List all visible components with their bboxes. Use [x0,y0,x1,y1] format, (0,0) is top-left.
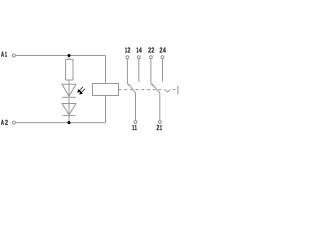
wire branch to resistor [68,56,70,60]
actuator dashed link [119,89,165,91]
label 14 [137,47,142,52]
resistor R1 [66,59,73,80]
wire LED to diode [68,97,70,115]
wire A2 horizontal [16,122,106,124]
wire diode to A2 line [68,115,70,123]
label 11 [132,125,136,130]
contact arm 1 [129,84,136,93]
terminal 14 [137,56,140,59]
diode D2 [62,104,76,115]
junction dot on A2 wire [68,121,71,124]
terminal A2 [12,121,15,124]
wire resistor to LED [68,80,70,96]
wire 12 [126,59,128,84]
wire 24 [162,59,164,82]
wire 14 [138,59,140,82]
terminal 12 [126,56,129,59]
contact arm 2 [152,84,160,93]
label A1 [1,52,7,57]
wire A1 horizontal [16,55,106,57]
label 24 [160,47,166,52]
label 12 [125,47,130,52]
actuator spring kink [165,90,171,92]
wire coil bottom to A2 [105,96,107,123]
contact 22 tip [151,84,153,86]
label 21 [157,125,162,130]
test button bar [177,86,179,95]
wire 22 [150,59,152,84]
LED arrows [78,87,85,94]
terminal 22 [149,56,152,59]
terminal A1 [12,54,15,57]
relay coil K1 [93,84,119,96]
label 22 [148,47,154,52]
wire common 21 [159,93,161,120]
wire common 11 [135,93,137,120]
terminal 11 [134,120,137,123]
junction dot on A1 wire [68,54,71,57]
wire A1 vertical drop to coil [105,56,107,84]
actuator dash to button [172,89,175,91]
terminal 24 [161,56,164,59]
LED D1 [62,84,76,96]
label A2 [1,120,8,125]
contact 12 tip [127,84,129,86]
terminal 21 [158,120,161,123]
